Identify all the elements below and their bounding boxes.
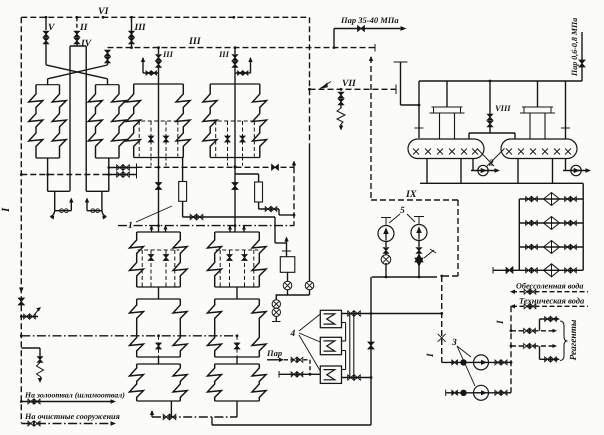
svg-text:Обессоленная вода: Обессоленная вода: [516, 282, 583, 291]
svg-text:5: 5: [400, 206, 405, 216]
svg-text:III: III: [188, 36, 202, 47]
svg-text:II: II: [79, 23, 88, 33]
svg-text:VII: VII: [342, 79, 356, 89]
svg-text:3: 3: [451, 338, 457, 348]
svg-text:I: I: [426, 353, 436, 358]
svg-text:IX: IX: [405, 189, 417, 200]
svg-text:Пар 35-40 МПа: Пар 35-40 МПа: [340, 15, 399, 25]
svg-text:На золоотвал (шламоотвал): На золоотвал (шламоотвал): [24, 391, 125, 400]
svg-text:2: 2: [488, 158, 494, 168]
svg-text:VI: VI: [98, 6, 110, 17]
svg-text:I: I: [0, 207, 12, 213]
svg-text:III: III: [134, 23, 146, 33]
svg-text:Реагенты: Реагенты: [569, 319, 579, 360]
svg-text:III: III: [162, 49, 174, 59]
svg-text:III: III: [218, 49, 230, 59]
svg-text:I: I: [496, 320, 506, 325]
svg-text:V: V: [48, 23, 55, 33]
svg-text:На очистные сооружения: На очистные сооружения: [24, 412, 120, 421]
svg-text:4: 4: [290, 329, 296, 339]
svg-text:Пар 0,6-0,8 МПа: Пар 0,6-0,8 МПа: [570, 18, 579, 77]
svg-text:Пар: Пар: [266, 348, 282, 358]
svg-text:VIII: VIII: [495, 103, 511, 113]
